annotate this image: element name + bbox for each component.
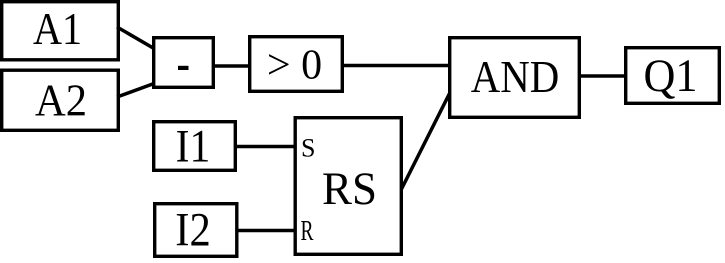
svg-text:A2: A2: [35, 76, 87, 126]
minus sign label: [178, 66, 189, 70]
input block I1: [154, 122, 236, 171]
subtractor block: [154, 38, 214, 88]
svg-text:AND: AND: [471, 51, 560, 102]
wire AND output to Q1: [579, 74, 626, 78]
AND gate block: [450, 38, 580, 118]
svg-text:A1: A1: [33, 4, 82, 54]
wire A2 to subtractor input: [117, 84, 154, 98]
input block A2: [2, 70, 119, 130]
svg-text:I2: I2: [175, 204, 211, 257]
input block I2: [155, 204, 237, 257]
RS latch block: [295, 118, 401, 255]
wire A1 to subtractor input: [117, 27, 154, 49]
svg-text:I1: I1: [176, 122, 211, 173]
wire comparator output to AND input: [342, 64, 450, 68]
input block A1: [2, 2, 119, 60]
svg-text:Q1: Q1: [644, 51, 698, 102]
svg-text:RS: RS: [322, 164, 377, 215]
wire RS output to AND input: [402, 94, 450, 190]
svg-text:> 0: > 0: [267, 42, 322, 88]
comparator block greater-than-zero: [250, 37, 343, 92]
wire I2 to RS R input: [237, 229, 296, 233]
wire I1 to RS S input: [235, 145, 296, 149]
svg-text:S: S: [301, 134, 315, 163]
svg-text:R: R: [301, 216, 314, 247]
output block Q1: [626, 48, 720, 104]
wire subtractor output to comparator input: [213, 64, 250, 68]
